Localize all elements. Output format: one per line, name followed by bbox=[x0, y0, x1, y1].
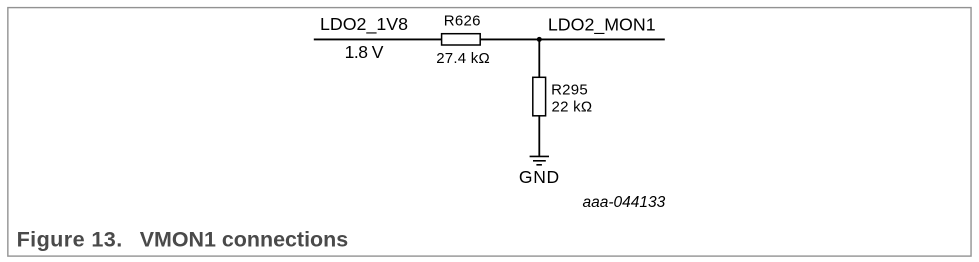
svg-text:Figure 13.: Figure 13. bbox=[17, 227, 123, 252]
resistor R626 bbox=[442, 34, 481, 45]
resistor R295 bbox=[533, 77, 546, 116]
wire: LDO2_1V8 to R626 bbox=[314, 38, 443, 40]
wire: R626 to LDO2_MON1 bbox=[480, 38, 665, 40]
svg-text:aaa-044133: aaa-044133 bbox=[583, 194, 666, 211]
wire: R295 to ground bbox=[538, 116, 540, 156]
svg-text:LDO2_1V8: LDO2_1V8 bbox=[320, 14, 408, 35]
svg-text:GND: GND bbox=[519, 167, 560, 187]
svg-text:1.8 V: 1.8 V bbox=[345, 42, 384, 62]
svg-text:LDO2_MON1: LDO2_MON1 bbox=[548, 15, 656, 36]
svg-text:R295: R295 bbox=[551, 81, 588, 98]
wire: junction to R295 bbox=[538, 39, 540, 77]
svg-text:VMON1 connections: VMON1 connections bbox=[140, 228, 349, 252]
svg-text:22 kΩ: 22 kΩ bbox=[552, 99, 593, 116]
ground bbox=[530, 156, 549, 164]
svg-text:27.4 kΩ: 27.4 kΩ bbox=[436, 50, 490, 67]
node junction bbox=[537, 37, 542, 42]
svg-text:R626: R626 bbox=[444, 13, 481, 30]
